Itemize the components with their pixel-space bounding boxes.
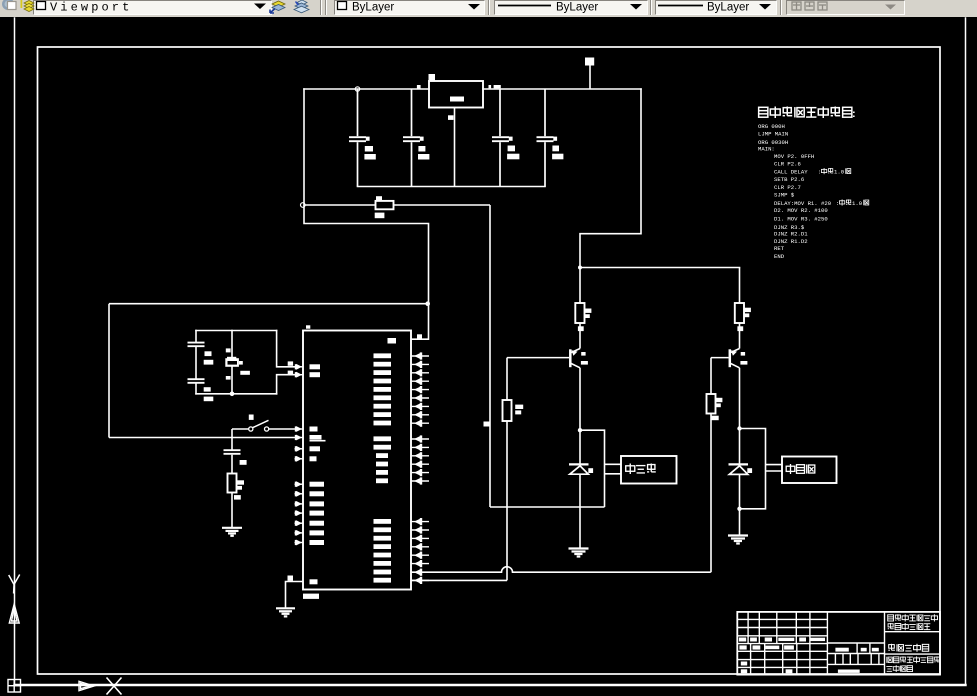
- label above crystal: [226, 348, 231, 352]
- pin P1.1: [295, 491, 304, 497]
- wire: osc left branch: [195, 331, 197, 343]
- label above chip: [306, 325, 310, 328]
- diode D1 flyback: [579, 430, 581, 464]
- toolbar icon: layers yellow stack: [21, 0, 35, 12]
- wire: regulator pin2 to ground bus: [454, 108, 456, 187]
- wire: EA line: [109, 437, 295, 439]
- wire: branch to driver 2: [580, 267, 740, 269]
- capacitor C5: [188, 343, 205, 347]
- toolbar icon: layer previous: [294, 0, 309, 13]
- transistor Q1 PNP: [570, 349, 580, 368]
- label 电气泵 electric pump: [626, 464, 656, 475]
- wire: down from EA line: [231, 438, 233, 450]
- junction node: [578, 266, 582, 270]
- wire: Q2 emitter down: [739, 368, 741, 429]
- wire: GND stub from chip: [286, 582, 304, 608]
- wire: net C horizontal to left side: [109, 303, 429, 305]
- wire: osc bottom rail: [196, 393, 277, 395]
- pin P0.4: [411, 386, 429, 393]
- value label C2: [418, 146, 425, 152]
- pin XTAL1: [295, 364, 304, 370]
- wire: resistor to transistor 2: [739, 323, 741, 349]
- UCS icon origin box: [8, 680, 21, 693]
- pin P0.7: [411, 411, 429, 418]
- junction node: [578, 428, 582, 432]
- value label C7: [240, 460, 247, 465]
- wire: net B down to chip VCC pin: [411, 304, 429, 340]
- pin number 3: [489, 85, 492, 88]
- resistor R4: [707, 394, 716, 414]
- wire: branch up to switch: [231, 429, 233, 438]
- wire: net B down-right-down: [304, 205, 429, 304]
- label S1: [249, 415, 254, 420]
- pin label XTAL2: [288, 371, 293, 375]
- wire: branch to pump box: [580, 430, 605, 507]
- value label R4: [716, 398, 723, 402]
- wire: diode 2 to node: [739, 474, 741, 508]
- pin P0.2: [411, 369, 429, 376]
- label Q2: [741, 352, 745, 356]
- pin P2.4: [411, 469, 429, 476]
- title text 低高音自动换式: [888, 614, 938, 630]
- resistor R1: [575, 303, 584, 323]
- node: open junction at top bus: [355, 87, 359, 91]
- wire: pump box leads: [605, 463, 622, 465]
- wire: +12V top bus left of regulator: [304, 88, 429, 90]
- value label R6: [237, 480, 245, 484]
- pin P0.1: [411, 361, 429, 368]
- wire: feed junction horizontal: [490, 506, 605, 508]
- diode D2 flyback: [739, 429, 741, 465]
- toolbar icon: layer states: [270, 1, 285, 13]
- svg-text:MOV P2. 0FFH: MOV P2. 0FFH: [774, 153, 814, 160]
- wire: base lead Q1: [507, 357, 569, 359]
- layer color swatch white: [37, 2, 46, 10]
- value label C3: [508, 146, 515, 152]
- pin P0.3: [411, 378, 429, 385]
- wire: resistor to transistor: [579, 323, 581, 349]
- assembly program listing: [758, 123, 832, 260]
- label below chip: [303, 594, 319, 599]
- wire: top bus right of regulator: [483, 88, 641, 90]
- svg-text:D1. MOV R3. #250: D1. MOV R3. #250: [774, 215, 828, 222]
- linetype combobox ByLayer: [498, 5, 551, 7]
- junction node: [425, 301, 430, 306]
- svg-text:CALL DELAY: CALL DELAY: [774, 169, 808, 176]
- svg-text:MAIN:: MAIN:: [758, 146, 775, 153]
- pin P3.0: [411, 518, 429, 525]
- wire: R4 down to P2.6 line: [710, 414, 712, 573]
- ground: [728, 536, 748, 544]
- capacitor C7: [224, 450, 241, 454]
- pin P1.5: [295, 530, 304, 536]
- wire: base branch down 2: [710, 358, 712, 394]
- value label C5: [205, 351, 212, 356]
- value label R3: [744, 308, 751, 312]
- pin label XTAL1: [288, 361, 293, 365]
- comment 延时1.0秒 line 1: [818, 168, 851, 176]
- pin EA: [295, 435, 304, 441]
- capacitor C1: [349, 89, 366, 187]
- pin XTAL2: [295, 372, 304, 378]
- ground: [569, 549, 589, 557]
- transistor Q2 PNP: [730, 349, 740, 368]
- crystal Y1: [225, 357, 242, 367]
- title text 湖南农业大学东方: [886, 656, 940, 672]
- UCS X label: [107, 678, 122, 695]
- load box 电磁阀 solenoid valve: [782, 457, 837, 484]
- wire: osc top rail: [196, 330, 277, 332]
- pin P3.4: [411, 552, 429, 559]
- label D1: [588, 468, 593, 473]
- resistor R2: [503, 400, 512, 421]
- pin name labels left column: [310, 364, 326, 584]
- color combobox ByLayer: [338, 2, 347, 10]
- pin P2.5: [411, 477, 429, 484]
- wire: left vertical of power section: [303, 89, 305, 205]
- oscillator network: [196, 331, 295, 394]
- capacitor C4: [537, 89, 554, 187]
- title text 科技学院: [886, 667, 892, 672]
- wire: collector feed: [579, 268, 581, 304]
- wire: ground bus under capacitors: [358, 186, 546, 188]
- svg-text::: :: [852, 108, 856, 120]
- title block text marks: [739, 638, 879, 674]
- pin P3.2: [411, 535, 429, 542]
- resistor R5 (series feed): [376, 201, 394, 209]
- pin number 1: [417, 85, 421, 89]
- pin P3.1: [411, 526, 429, 533]
- wire: P2.6 control line with hop: [411, 567, 711, 573]
- value label C1: [365, 146, 373, 152]
- pin P1.3: [295, 510, 304, 516]
- pin P2.7: [411, 577, 429, 584]
- resistor R6: [228, 474, 237, 493]
- pin P0.x: [411, 420, 429, 427]
- svg-text:SJMP $: SJMP $: [774, 192, 795, 199]
- svg-text:END: END: [774, 253, 785, 260]
- pin P0.5: [411, 394, 429, 401]
- ground under chip: [276, 608, 295, 616]
- label 电磁阀 solenoid valve: [786, 464, 815, 474]
- value label R2: [515, 405, 523, 409]
- svg-text:DELAY:MOV R1. #20: DELAY:MOV R1. #20: [774, 200, 832, 207]
- label Q1: [581, 352, 585, 356]
- value label C6: [204, 387, 211, 391]
- wire: Q1 emitter down: [579, 368, 581, 430]
- VCC terminal: [589, 66, 591, 90]
- wire: node to ground 2: [739, 509, 741, 535]
- junction node: [737, 507, 741, 511]
- svg-text:LJMP MAIN: LJMP MAIN: [758, 130, 788, 137]
- wire: cap to resistor: [231, 455, 233, 474]
- pin label above regulator: [429, 74, 436, 81]
- value label crystal: [240, 371, 250, 375]
- svg-text:ORG 000H: ORG 000H: [758, 123, 785, 130]
- UCS Y axis arrowhead: [9, 604, 19, 623]
- switch S1: [232, 428, 249, 430]
- junction node: [737, 426, 741, 430]
- pin P3.5: [411, 560, 429, 567]
- label R5: [376, 196, 382, 200]
- pin P1.6: [295, 540, 304, 546]
- wire: left drop to switch line: [108, 304, 110, 438]
- chip label top: [388, 338, 397, 344]
- pin PSEN: [295, 446, 304, 452]
- pin P2.2: [411, 452, 429, 459]
- UCS Y label: [9, 575, 20, 594]
- wire: branch to valve box: [740, 429, 766, 509]
- title text 方案二总电路: [888, 644, 928, 652]
- pin number 2: [448, 115, 454, 120]
- pin P2.1: [411, 444, 429, 451]
- wire: base lead Q2: [711, 357, 729, 359]
- wire: diode to ground: [579, 474, 581, 548]
- node: open junction feed line: [301, 203, 306, 208]
- svg-text:CLR P2.6: CLR P2.6: [774, 160, 801, 167]
- label D2: [747, 468, 752, 473]
- pin 20 label: [288, 576, 294, 581]
- wire: feed line down to driver area: [489, 205, 491, 507]
- pin name labels right column: [374, 353, 392, 582]
- wire: collector feed 2: [739, 268, 741, 304]
- comment 延时1.0秒 line 2: [836, 199, 869, 207]
- pin P1.0: [295, 481, 304, 487]
- pin ALE: [295, 456, 304, 462]
- load box 电气泵 electric pump: [621, 456, 677, 484]
- value label: [375, 213, 385, 219]
- lineweight combobox ByLayer: [658, 5, 703, 7]
- capacitor C3: [492, 89, 509, 187]
- pin P3.3: [411, 543, 429, 550]
- title text 车用电气喇叭: [888, 623, 894, 629]
- wire: base branch down: [506, 358, 508, 400]
- wire: resistor to ground: [231, 493, 233, 528]
- pin P0.6: [411, 403, 429, 410]
- svg-text:SETB P2.6: SETB P2.6: [774, 176, 804, 183]
- title block: [737, 612, 940, 675]
- voltage regulator U2 7805: [429, 81, 483, 108]
- pin P0.0: [411, 352, 429, 359]
- svg-text::: :: [818, 169, 821, 176]
- pin P2.3: [411, 461, 429, 468]
- svg-text:DJNZ R2.D1: DJNZ R2.D1: [774, 230, 808, 237]
- svg-text:1.0: 1.0: [852, 200, 863, 207]
- wire: P2.7 control line to R2: [411, 579, 507, 581]
- pin P1.4: [295, 520, 304, 526]
- svg-text:1.0: 1.0: [834, 169, 845, 176]
- resistor R3: [735, 303, 744, 323]
- capacitor C6: [188, 379, 205, 383]
- pin P2.6: [411, 569, 429, 576]
- paper left edge: [14, 18, 16, 684]
- pin label VCC: [417, 334, 422, 339]
- svg-text:DJNZ R1.D2: DJNZ R1.D2: [774, 238, 808, 245]
- value label C4: [552, 146, 559, 152]
- paper right edge: [965, 18, 967, 684]
- svg-text::: :: [836, 200, 839, 207]
- plot style combobox disabled: [885, 5, 896, 10]
- pin RST: [295, 426, 304, 432]
- pin P1.2: [295, 501, 304, 507]
- svg-text:CLR P2.7: CLR P2.7: [774, 184, 801, 191]
- toolbar icon: make object's layer current: [2, 0, 16, 10]
- pin P2.0: [411, 435, 429, 442]
- svg-text:RET: RET: [774, 245, 785, 252]
- UCS X axis arrowhead: [79, 681, 94, 690]
- value label R1: [585, 309, 592, 313]
- wire: crystal branch: [231, 331, 233, 358]
- wire: valve box leads: [766, 464, 783, 466]
- svg-text:D2. MOV R2. #100: D2. MOV R2. #100: [774, 207, 828, 214]
- paper bottom edge: [15, 684, 966, 686]
- wire: right bus down from top bus: [580, 89, 641, 268]
- wire: feed line with resistor: [305, 204, 376, 206]
- junction node: [230, 392, 235, 397]
- wire: xtal1 lead to chip: [277, 331, 295, 367]
- capacitor C2: [403, 89, 420, 187]
- ground: [222, 528, 242, 536]
- op-amp U1 microcontroller AT89C51 body: [303, 331, 411, 590]
- wire: xtal2 lead to chip: [277, 375, 295, 394]
- program title 单片机控制程序:: [759, 107, 856, 121]
- wire: R2 down to control line: [506, 421, 508, 580]
